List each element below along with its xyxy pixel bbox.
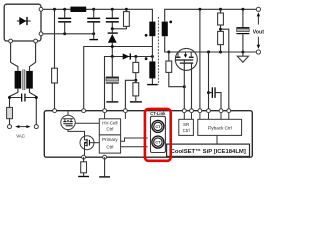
transistor Q-HV (HV cell FET inside IC) — [61, 111, 75, 129]
wire: choke to X-cap legs — [10, 89, 18, 108]
CT coupler 2 — [152, 136, 164, 148]
diode D-aux (series, pointing right) — [123, 53, 131, 59]
common-mode choke L2 winding B — [26, 71, 33, 89]
ground (aux winding) — [147, 84, 157, 85]
node: phase dot aux — [145, 57, 148, 60]
node: output rail dots — [198, 8, 201, 11]
wire: feedback tap to pin — [221, 29, 229, 111]
transistor Q-SR (synchronous rectifier MOSFET) — [175, 48, 197, 70]
svg-text:CoolSET™ SiP [ICE184LM]: CoolSET™ SiP [ICE184LM] — [171, 148, 246, 155]
resistor R-div2 (lower output divider) — [218, 31, 224, 52]
capacitor C-ss (horizontal) — [207, 87, 221, 110]
pin circles on IC bottom edge — [82, 155, 86, 159]
capacitor C2 (bulk cap 2) — [87, 9, 100, 34]
node: VAC terminal N — [34, 125, 38, 129]
transistor Q-main (primary power FET inside IC) — [80, 136, 99, 150]
capacitor C-X (X capacitor) — [10, 94, 37, 102]
wire: DC bus from bridge to transformer primary top — [41, 9, 152, 21]
diode D-clamp (pointing up) — [108, 29, 118, 57]
svg-text:VAC: VAC — [16, 134, 25, 139]
node: VCC node dots — [111, 55, 114, 58]
node: divider tap to pin — [134, 79, 137, 82]
node Vout- terminal — [256, 50, 260, 54]
svg-text:Ctrl: Ctrl — [106, 144, 113, 149]
wire: secondary bottom to SR rail — [165, 36, 257, 52]
inductor L1 (bus filter choke) — [70, 7, 86, 12]
node: phase dot primary — [145, 34, 148, 37]
capacitor C1 (bulk cap) — [58, 9, 71, 34]
node: phase dot secondary — [169, 21, 172, 24]
ground (aux divider) — [130, 101, 142, 102]
ground (primary, under C2) — [89, 34, 98, 41]
wire: SR drain sense from + rail to pin — [199, 9, 201, 110]
wire: right block pin stubs — [184, 111, 229, 120]
pin circles on IC top edge — [53, 109, 57, 113]
node Vout+ terminal — [256, 7, 260, 11]
wire: SR gate to pin — [191, 64, 193, 111]
CT coupler 1 — [152, 120, 164, 132]
wire: negative rail from bridge — [41, 33, 94, 35]
svg-text:CT-Link: CT-Link — [150, 111, 166, 116]
svg-text:SR: SR — [183, 122, 190, 127]
wire: Flyback Ctrl to part label — [216, 135, 218, 144]
wire: Q-HV to Q-main — [68, 130, 85, 136]
svg-text:Primary: Primary — [102, 137, 118, 142]
node: clamp node — [111, 27, 114, 30]
HV-Cell Ctrl box — [99, 119, 120, 135]
transformer core — [157, 17, 159, 85]
transformer T1 aux winding — [149, 61, 155, 78]
VAC arrow and label — [15, 125, 31, 138]
wire: VCC/aux rail (horizontal y=56.5) down to IC pin — [105, 57, 153, 111]
ground (CS resistor) — [78, 176, 89, 177]
capacitor C3 (clamp cap) — [106, 9, 119, 29]
transformer T1 primary winding — [149, 22, 155, 37]
transformer T1 secondary winding — [162, 22, 168, 37]
op-amp: none / IC block CoolSET SiP outline U1 — [44, 111, 252, 158]
wire: secondary ground to pin — [208, 52, 210, 111]
common-mode choke L2 winding A — [15, 71, 22, 89]
node: bus junction dots — [53, 8, 56, 11]
wire+ground (IC GND pin) — [104, 157, 106, 176]
wire: Y-link from clamp rail to IC pin — [84, 47, 153, 111]
svg-text:CT: CT — [155, 125, 161, 129]
ground (secondary GND triangle) — [237, 52, 248, 62]
Vout annotation arrows and label — [253, 12, 265, 48]
Primary Ctrl box — [99, 135, 120, 153]
wire: SR source sense to pin — [183, 60, 185, 110]
resistor R-aux-b (lower divider) — [133, 83, 139, 102]
wire: aux bottom lead — [151, 78, 153, 84]
resistor R-aux-a (upper divider) — [133, 57, 139, 83]
Flyback Ctrl box — [198, 119, 242, 135]
resistor R-div1 (upper output divider) — [218, 9, 224, 31]
wire: drain pin stub into HV-Cell box — [104, 111, 106, 119]
EMI filter: wires bridge to choke — [11, 41, 18, 71]
CT-Link red highlight box — [145, 109, 171, 161]
svg-text:HV-Cell: HV-Cell — [102, 121, 117, 126]
svg-text:Flyback Ctrl: Flyback Ctrl — [208, 126, 232, 131]
svg-text:Ctrl: Ctrl — [106, 127, 113, 132]
svg-text:Vout: Vout — [253, 29, 265, 35]
ground (VCC cap) — [106, 101, 118, 102]
CT-Link module box — [151, 116, 166, 152]
resistor R-HV (startup HV line resistor) — [52, 9, 58, 110]
wire: Q-HV to HV-Cell Ctrl — [75, 122, 99, 124]
part label box CoolSET — [167, 144, 250, 156]
svg-text:Ctrl: Ctrl — [183, 128, 190, 133]
capacitor C-VCC (electrolytic) — [106, 57, 119, 102]
wire: Primary Ctrl to CT-Link (two links) — [121, 138, 148, 141]
resistor R-discharge — [7, 107, 13, 124]
node: divider midpoint — [219, 28, 222, 31]
common-mode choke core — [23, 69, 25, 90]
svg-text:CT: CT — [155, 141, 161, 145]
resistor R-CS (current sense) — [81, 157, 87, 176]
capacitor C-out (output electrolytic) — [236, 9, 249, 52]
wire: secondary top to output + rail — [165, 9, 257, 21]
wire: ZCD pin stub — [124, 111, 126, 119]
resistor R-clamp — [112, 9, 129, 29]
node: VAC terminal L — [8, 125, 12, 129]
bridge rectifier BR1 — [4, 4, 41, 41]
bridge terminal circles — [39, 7, 43, 11]
wire: primary bottom to aux top — [151, 36, 153, 61]
wire: Q-main source to CS pin — [84, 150, 86, 158]
resistor R-SRgate — [166, 52, 184, 87]
SR Ctrl box — [179, 119, 194, 135]
